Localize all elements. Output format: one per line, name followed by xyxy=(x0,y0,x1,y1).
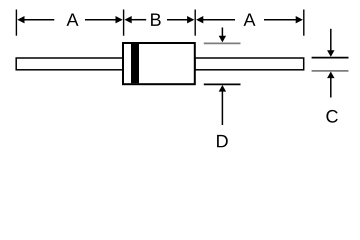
label D xyxy=(217,135,228,147)
dimension D: bottom extension wire xyxy=(204,83,241,85)
dimension D: up arrow head xyxy=(219,85,226,92)
dimension C: down arrow head xyxy=(327,50,334,57)
dimension B: arrow right xyxy=(187,16,194,23)
dimension B: wire right xyxy=(167,19,188,21)
dimension D: up arrow wire xyxy=(221,90,223,125)
dimension A left: wire right xyxy=(85,19,117,21)
dimension C: down arrow wire xyxy=(330,29,332,52)
extension tick T2 (body left edge) xyxy=(123,10,125,36)
cathode band xyxy=(131,44,139,83)
dimension A right: arrow right xyxy=(296,16,303,23)
dimension A right: wire left xyxy=(202,19,235,21)
lead L1 (left axial lead) xyxy=(16,58,123,70)
dimension A left: arrow right xyxy=(116,16,123,23)
dimension A left: wire left xyxy=(24,19,55,21)
dimension C: up arrow wire xyxy=(330,77,332,98)
dimension A right: wire right xyxy=(264,19,297,21)
dimension B: arrow left xyxy=(125,16,132,23)
label A (left) xyxy=(67,14,79,26)
dimension A left: arrow left xyxy=(17,16,24,23)
dimension C: bottom extension wire (gray) xyxy=(312,70,349,72)
label C xyxy=(326,110,337,123)
extension tick T1 (left lead end) xyxy=(15,10,17,36)
extension tick T4 (right lead end) xyxy=(303,10,305,36)
dimension C: up arrow head xyxy=(327,72,334,79)
dimension D: down arrow wire xyxy=(221,28,223,38)
dimension D: down arrow head xyxy=(219,36,226,43)
diode body xyxy=(123,43,195,84)
lead L2 (right axial lead) xyxy=(195,58,304,70)
dimension A right: arrow left xyxy=(196,16,203,23)
dimension D: top extension wire (gray) xyxy=(204,42,241,44)
label B xyxy=(151,14,161,26)
dimension B: wire left xyxy=(131,19,147,21)
label A (right) xyxy=(244,14,256,26)
dimension C: top extension wire xyxy=(312,57,349,59)
extension tick T3 (body right edge) xyxy=(194,10,196,36)
